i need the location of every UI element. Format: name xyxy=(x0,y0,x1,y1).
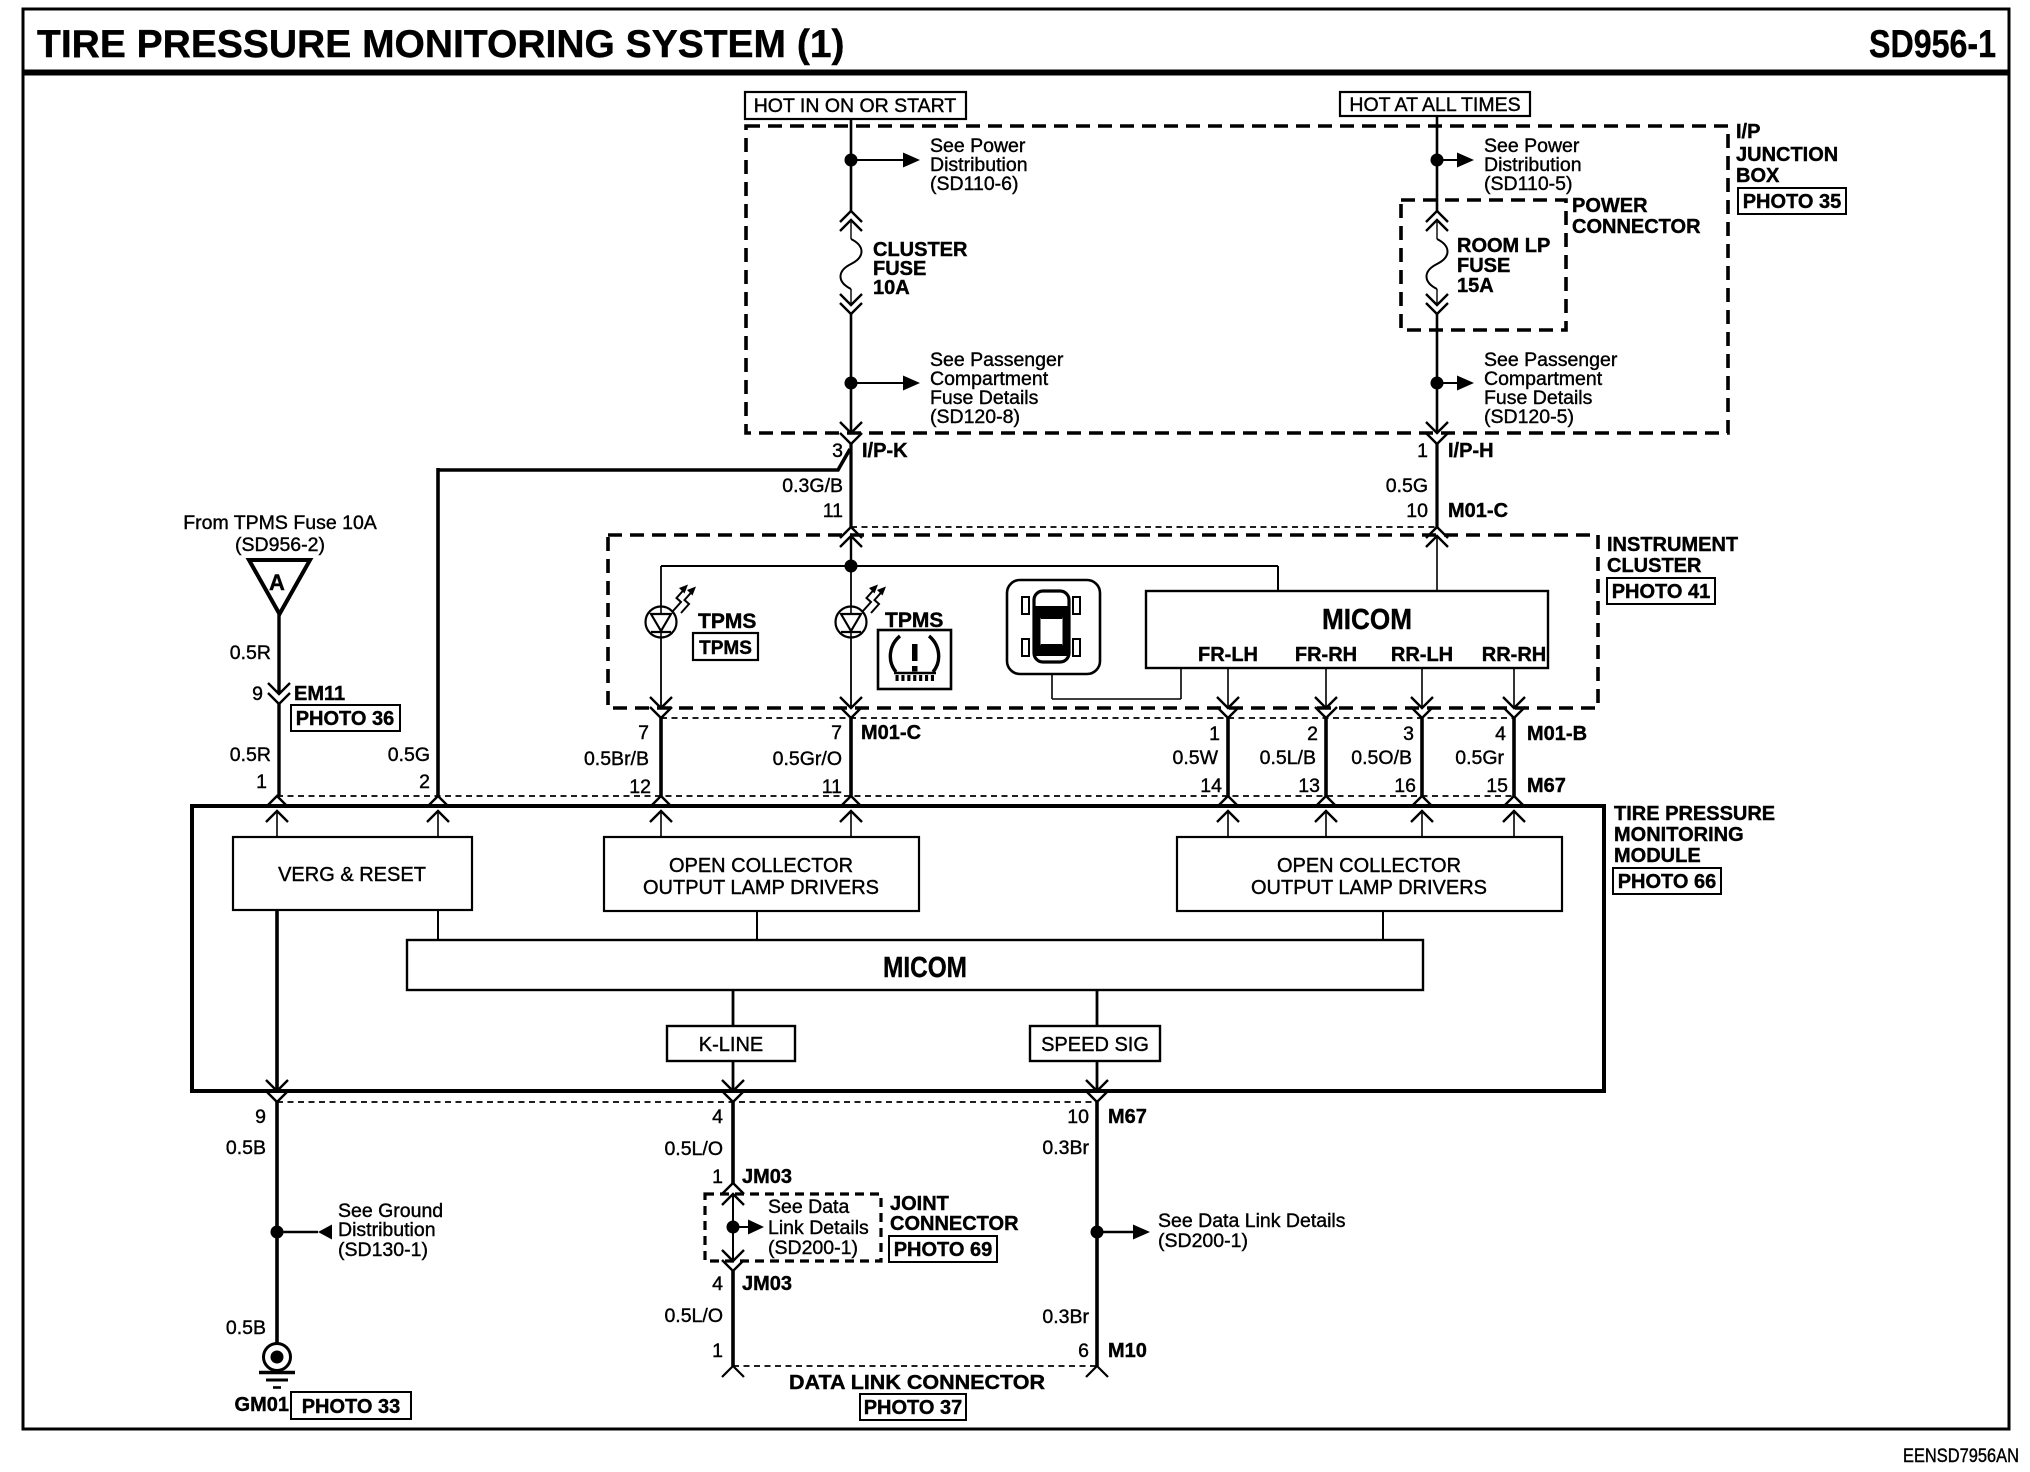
svg-text:CLUSTER: CLUSTER xyxy=(1607,555,1702,577)
svg-text:JUNCTION: JUNCTION xyxy=(1736,144,1838,166)
svg-text:1: 1 xyxy=(1209,723,1220,745)
svg-text:TIRE PRESSURE MONITORING SYSTE: TIRE PRESSURE MONITORING SYSTEM (1) xyxy=(37,23,845,66)
svg-text:FR-RH: FR-RH xyxy=(1295,644,1357,666)
svg-text:JM03: JM03 xyxy=(742,1273,792,1295)
svg-text:15: 15 xyxy=(1486,775,1508,797)
svg-text:OPEN COLLECTOR: OPEN COLLECTOR xyxy=(669,855,853,877)
svg-text:4: 4 xyxy=(1495,723,1506,745)
svg-text:(SD120-5): (SD120-5) xyxy=(1484,406,1574,428)
svg-text:PHOTO 69: PHOTO 69 xyxy=(894,1239,993,1261)
svg-text:0.5L/B: 0.5L/B xyxy=(1260,747,1316,769)
svg-text:0.5G: 0.5G xyxy=(388,744,430,766)
svg-text:6: 6 xyxy=(1078,1340,1089,1362)
svg-text:EM11: EM11 xyxy=(294,683,345,705)
svg-text:OUTPUT LAMP DRIVERS: OUTPUT LAMP DRIVERS xyxy=(643,877,879,899)
svg-text:JM03: JM03 xyxy=(742,1166,792,1188)
svg-text:PHOTO 36: PHOTO 36 xyxy=(296,708,395,730)
svg-text:PHOTO 41: PHOTO 41 xyxy=(1612,581,1711,603)
svg-text:(SD120-8): (SD120-8) xyxy=(930,406,1020,428)
svg-text:0.5Br/B: 0.5Br/B xyxy=(584,748,649,770)
svg-text:0.5Gr: 0.5Gr xyxy=(1455,747,1504,769)
svg-text:PHOTO 37: PHOTO 37 xyxy=(864,1397,963,1419)
svg-text:15A: 15A xyxy=(1457,275,1494,297)
svg-text:1: 1 xyxy=(712,1166,723,1188)
svg-text:0.5G: 0.5G xyxy=(1386,475,1428,497)
svg-text:A: A xyxy=(269,570,285,595)
svg-text:M67: M67 xyxy=(1527,775,1566,797)
svg-text:0.5B: 0.5B xyxy=(226,1137,266,1159)
svg-text:PHOTO 33: PHOTO 33 xyxy=(302,1396,401,1418)
svg-text:4: 4 xyxy=(712,1106,723,1128)
svg-text:TIRE PRESSURE: TIRE PRESSURE xyxy=(1614,803,1775,825)
svg-text:(SD956-2): (SD956-2) xyxy=(235,534,325,556)
svg-text:MONITORING: MONITORING xyxy=(1614,824,1744,846)
svg-text:7: 7 xyxy=(831,722,842,744)
svg-text:3: 3 xyxy=(832,440,843,462)
svg-text:0.3G/B: 0.3G/B xyxy=(782,475,843,497)
svg-text:11: 11 xyxy=(822,776,842,798)
svg-text:0.5Gr/O: 0.5Gr/O xyxy=(773,748,842,770)
svg-text:MICOM: MICOM xyxy=(883,952,967,984)
svg-text:4: 4 xyxy=(712,1273,723,1295)
svg-text:0.5R: 0.5R xyxy=(230,744,271,766)
svg-text:2: 2 xyxy=(419,771,430,793)
svg-text:Link Details: Link Details xyxy=(768,1217,869,1239)
svg-text:I/P: I/P xyxy=(1736,121,1760,143)
svg-text:M01-B: M01-B xyxy=(1527,723,1587,745)
svg-text:0.5W: 0.5W xyxy=(1172,747,1218,769)
svg-text:OPEN COLLECTOR: OPEN COLLECTOR xyxy=(1277,855,1461,877)
svg-text:12: 12 xyxy=(629,776,651,798)
svg-text:(SD200-1): (SD200-1) xyxy=(768,1237,858,1259)
svg-text:GM01: GM01 xyxy=(235,1394,289,1416)
svg-text:9: 9 xyxy=(252,683,263,705)
svg-text:2: 2 xyxy=(1307,723,1318,745)
svg-text:ROOM LP: ROOM LP xyxy=(1457,235,1550,257)
svg-text:POWER: POWER xyxy=(1572,195,1648,217)
svg-text:JOINT: JOINT xyxy=(890,1193,949,1215)
svg-text:FUSE: FUSE xyxy=(1457,255,1510,277)
svg-text:M10: M10 xyxy=(1108,1340,1147,1362)
svg-text:0.5L/O: 0.5L/O xyxy=(664,1305,723,1327)
svg-text:1: 1 xyxy=(256,771,267,793)
svg-text:M01-C: M01-C xyxy=(861,722,921,744)
svg-text:(SD110-6): (SD110-6) xyxy=(930,173,1019,195)
svg-text:CONNECTOR: CONNECTOR xyxy=(1572,216,1701,238)
svg-text:13: 13 xyxy=(1298,775,1320,797)
svg-text:I/P-K: I/P-K xyxy=(862,440,908,462)
svg-text:VERG & RESET: VERG & RESET xyxy=(278,864,426,886)
svg-text:0.5R: 0.5R xyxy=(230,642,271,664)
svg-text:7: 7 xyxy=(638,722,649,744)
svg-text:(SD130-1): (SD130-1) xyxy=(338,1239,428,1261)
svg-text:OUTPUT LAMP DRIVERS: OUTPUT LAMP DRIVERS xyxy=(1251,877,1487,899)
svg-text:9: 9 xyxy=(255,1106,266,1128)
svg-text:FR-LH: FR-LH xyxy=(1198,644,1258,666)
svg-text:I/P-H: I/P-H xyxy=(1448,440,1494,462)
svg-text:RR-LH: RR-LH xyxy=(1391,644,1453,666)
svg-text:PHOTO 66: PHOTO 66 xyxy=(1618,871,1717,893)
svg-text:DATA LINK CONNECTOR: DATA LINK CONNECTOR xyxy=(789,1372,1046,1394)
svg-text:MODULE: MODULE xyxy=(1614,845,1701,867)
svg-text:0.5L/O: 0.5L/O xyxy=(664,1138,723,1160)
svg-text:3: 3 xyxy=(1403,723,1414,745)
svg-text:CONNECTOR: CONNECTOR xyxy=(890,1213,1019,1235)
svg-text:PHOTO 35: PHOTO 35 xyxy=(1743,191,1842,213)
svg-text:RR-RH: RR-RH xyxy=(1482,644,1546,666)
svg-text:(SD110-5): (SD110-5) xyxy=(1484,173,1573,195)
svg-text:TPMS: TPMS xyxy=(699,638,752,659)
svg-text:M67: M67 xyxy=(1108,1106,1147,1128)
svg-text:0.5O/B: 0.5O/B xyxy=(1351,747,1412,769)
svg-text:1: 1 xyxy=(712,1340,723,1362)
svg-text:0.3Br: 0.3Br xyxy=(1042,1306,1089,1328)
svg-text:HOT IN ON OR START: HOT IN ON OR START xyxy=(754,95,957,117)
svg-text:0.5B: 0.5B xyxy=(226,1317,266,1339)
svg-text:TPMS: TPMS xyxy=(698,610,756,633)
svg-text:10: 10 xyxy=(1406,500,1428,522)
svg-text:See Data Link Details: See Data Link Details xyxy=(1158,1210,1346,1232)
svg-text:SD956-1: SD956-1 xyxy=(1869,23,1996,66)
svg-text:TPMS: TPMS xyxy=(885,609,943,632)
svg-text:16: 16 xyxy=(1394,775,1416,797)
svg-text:INSTRUMENT: INSTRUMENT xyxy=(1607,534,1738,556)
svg-text:0.3Br: 0.3Br xyxy=(1042,1137,1089,1159)
svg-text:10: 10 xyxy=(1067,1106,1089,1128)
svg-text:1: 1 xyxy=(1417,440,1428,462)
svg-text:EENSD7956AN: EENSD7956AN xyxy=(1903,1446,2019,1467)
svg-text:Distribution: Distribution xyxy=(338,1219,436,1241)
svg-text:(SD200-1): (SD200-1) xyxy=(1158,1230,1248,1252)
svg-text:14: 14 xyxy=(1200,775,1222,797)
svg-text:HOT AT ALL TIMES: HOT AT ALL TIMES xyxy=(1349,94,1520,116)
svg-text:See Data: See Data xyxy=(768,1196,849,1218)
svg-text:BOX: BOX xyxy=(1736,165,1780,187)
svg-text:From TPMS Fuse 10A: From TPMS Fuse 10A xyxy=(183,512,377,534)
svg-text:SPEED SIG: SPEED SIG xyxy=(1041,1034,1149,1056)
svg-text:10A: 10A xyxy=(873,277,910,299)
svg-text:M01-C: M01-C xyxy=(1448,500,1508,522)
svg-text:K-LINE: K-LINE xyxy=(699,1034,763,1056)
svg-text:11: 11 xyxy=(823,500,843,522)
svg-text:MICOM: MICOM xyxy=(1322,604,1412,636)
